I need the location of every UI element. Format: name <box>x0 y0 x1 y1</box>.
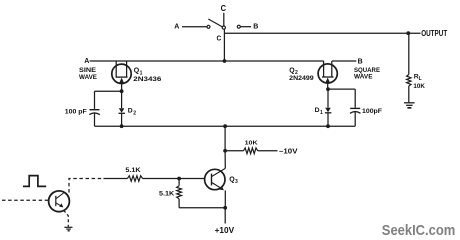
svg-text:C: C <box>221 3 226 13</box>
svg-text:D: D <box>128 108 133 115</box>
svg-text:L: L <box>419 76 422 82</box>
svg-text:OUTPUT: OUTPUT <box>421 29 447 38</box>
svg-text:–10V: –10V <box>279 146 298 155</box>
svg-text:5.1K: 5.1K <box>125 167 141 174</box>
svg-text:100 pF: 100 pF <box>65 108 87 115</box>
svg-text:2N2499: 2N2499 <box>289 75 314 82</box>
svg-text:+10V: +10V <box>215 225 235 235</box>
svg-text:SINE: SINE <box>79 67 97 74</box>
svg-text:100pF: 100pF <box>362 108 382 115</box>
svg-text:A: A <box>84 58 89 65</box>
svg-text:C: C <box>217 33 222 42</box>
svg-text:2N3436: 2N3436 <box>133 76 161 83</box>
svg-text:B: B <box>358 58 363 65</box>
svg-text:A: A <box>174 24 179 31</box>
svg-text:3: 3 <box>235 179 238 185</box>
svg-text:SeekIC.com: SeekIC.com <box>382 222 456 239</box>
svg-text:1: 1 <box>320 110 323 116</box>
svg-text:D: D <box>315 107 320 114</box>
svg-text:5.1K: 5.1K <box>159 191 175 198</box>
svg-text:WAVE: WAVE <box>354 73 373 80</box>
svg-text:WAVE: WAVE <box>79 74 98 81</box>
svg-text:B: B <box>253 24 258 31</box>
svg-text:2: 2 <box>133 111 136 117</box>
svg-text:10K: 10K <box>413 83 425 90</box>
svg-text:10K: 10K <box>245 141 259 147</box>
